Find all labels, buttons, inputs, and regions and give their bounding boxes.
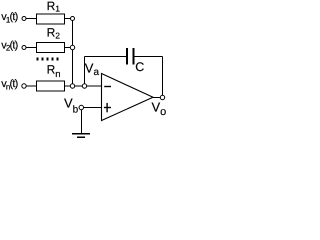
svg-text:v1(t): v1(t) bbox=[1, 11, 17, 24]
svg-text:R1: R1 bbox=[47, 0, 61, 14]
svg-text:vn(t): vn(t) bbox=[1, 78, 17, 91]
svg-text:v2(t): v2(t) bbox=[1, 39, 17, 52]
svg-text:Vb: Vb bbox=[64, 96, 79, 116]
svg-text:Vo: Vo bbox=[152, 99, 167, 118]
svg-text:Rn: Rn bbox=[47, 63, 61, 80]
svg-text:R2: R2 bbox=[47, 26, 61, 41]
svg-text:C: C bbox=[135, 60, 144, 74]
svg-text:Va: Va bbox=[85, 61, 100, 78]
